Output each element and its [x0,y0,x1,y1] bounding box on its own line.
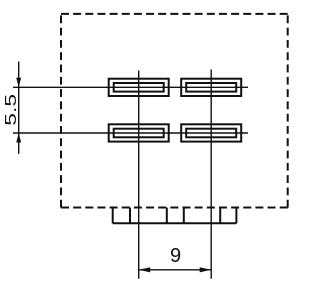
terminal tab bottom-left (outer) [109,124,169,141]
terminal tab bottom-right (outer) [181,124,241,141]
case top edge [61,13,288,15]
terminal tab top-right (outer) [181,79,241,96]
mounting foot outline (bottom) [113,208,237,224]
arrowhead left at col1 [139,267,151,272]
terminal tab top-left (outer) [109,79,169,96]
svg-text:9: 9 [170,245,181,267]
centerline column 1 (vertical) [138,71,140,279]
arrowhead right at col2 [200,267,212,272]
centerline column 2 (vertical) [210,70,212,279]
dimension line 9 (bottom, horizontal) [139,269,212,271]
case left edge [60,15,62,207]
case outline (dashed rectangle) [61,14,288,208]
svg-text:5.5: 5.5 [2,94,20,126]
centerline row 1 (horizontal) [13,86,248,88]
case bottom edge [61,207,288,209]
dimension line 5.5 (left, vertical) [18,62,20,154]
case right edge [287,15,289,207]
centerline row 2 (horizontal) [13,132,248,134]
arrowhead up at row2 [16,133,21,143]
arrowhead down at row1 [16,78,21,88]
